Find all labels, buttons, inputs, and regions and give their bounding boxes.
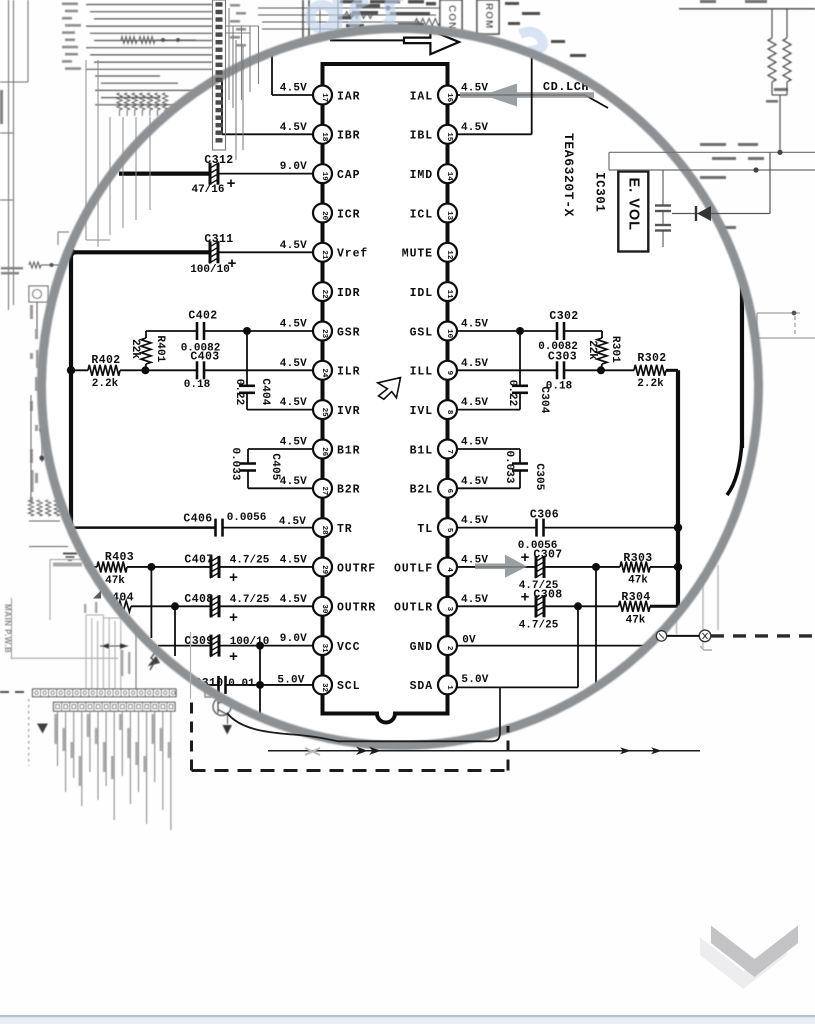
resistor R403 47k (90, 551, 151, 587)
node ILR junction (141, 366, 149, 374)
svg-text:IAR: IAR (337, 90, 360, 103)
background: diagonal diode squiggle (150, 650, 160, 670)
pin 23 GSR (313, 322, 360, 341)
svg-text:IVR: IVR (337, 405, 360, 418)
svg-text:GND: GND (410, 641, 433, 654)
svg-text:C408: C408 (184, 593, 213, 606)
svg-text:1: 1 (445, 685, 453, 690)
pin 18 IBR (313, 125, 360, 144)
svg-text:8: 8 (445, 410, 453, 415)
pin 30 OUTRR (313, 597, 376, 616)
pin 4 OUTLF (394, 558, 457, 577)
background: left text specks mid (0, 90, 23, 274)
svg-text:4.5V: 4.5V (280, 319, 307, 331)
svg-text:C306: C306 (530, 509, 559, 522)
pin 2 GND (410, 636, 457, 655)
svg-text:IBL: IBL (410, 130, 433, 143)
svg-text:C302: C302 (549, 310, 578, 323)
svg-text:4: 4 (445, 567, 453, 572)
svg-text:C308: C308 (533, 589, 562, 602)
pin 13 ICL (410, 204, 457, 223)
pin 9 ILL (410, 361, 457, 380)
svg-text:R403: R403 (105, 551, 134, 564)
svg-text:32: 32 (320, 683, 328, 693)
background: dashed stub left (0, 691, 24, 693)
svg-text:25: 25 (320, 408, 328, 418)
svg-text:Vref: Vref (337, 248, 368, 261)
node R303 bus junction (674, 563, 682, 571)
svg-text:C404: C404 (259, 378, 271, 405)
svg-text:C407: C407 (184, 554, 213, 567)
chevron shadow (700, 938, 787, 990)
wire right vertical (clipped) with hook (727, 260, 742, 495)
long wire with double arrows under IC (268, 747, 700, 755)
svg-text:0.01: 0.01 (228, 678, 255, 690)
background: left margin verticals (0, 0, 28, 310)
svg-text:30: 30 (320, 604, 328, 614)
svg-text:4.5V: 4.5V (461, 122, 488, 134)
node OUTRF junction (147, 563, 155, 638)
capacitor C304 0.22 on IVL net (457, 331, 550, 414)
svg-text:2.2k: 2.2k (637, 378, 664, 390)
label box E. VOL (618, 172, 648, 252)
svg-text:9: 9 (445, 371, 453, 376)
background: rotated CON box (440, 0, 462, 37)
svg-text:4.5V: 4.5V (461, 358, 488, 370)
background: small left box frame (50, 560, 82, 621)
svg-text:5.0V: 5.0V (277, 675, 304, 687)
node OUTRR junction (171, 602, 179, 656)
svg-text:4.5V: 4.5V (280, 83, 307, 95)
svg-text:3: 3 (445, 607, 453, 612)
overlay: descending verticals left (86, 8, 243, 247)
resistor R302 2.2k (601, 352, 678, 390)
svg-text:0.18: 0.18 (184, 379, 211, 391)
svg-text:24: 24 (320, 368, 328, 378)
svg-text:IDL: IDL (410, 287, 433, 300)
gray cursor arrow at OUTLF (475, 555, 527, 578)
svg-text:4.5V: 4.5V (461, 594, 488, 606)
gray cursor arrow at IAL (460, 84, 594, 107)
background: rotated ROM box (477, 0, 499, 34)
svg-text:0V: 0V (462, 635, 476, 647)
background: small double arrow (100, 643, 128, 649)
svg-text:ROM: ROM (483, 3, 494, 29)
pin 21 Vref (313, 243, 368, 262)
svg-text:B2R: B2R (337, 484, 360, 497)
svg-text:9.0V: 9.0V (280, 633, 307, 645)
svg-text:11: 11 (445, 290, 453, 300)
background: right gray verticals (677, 565, 719, 648)
capacitor C403 0.18 on ILR net (145, 351, 313, 392)
overlay gray riser at dashed corner (190, 632, 192, 699)
bottom divider line (0, 1015, 815, 1017)
wire left supply bus (67, 248, 75, 530)
wire right bus (676, 370, 680, 606)
svg-text:GSL: GSL (410, 326, 433, 339)
background: top mid wiring (258, 0, 440, 42)
svg-text:C403: C403 (190, 351, 219, 364)
svg-text:26: 26 (320, 447, 328, 457)
node ILL junction (597, 366, 605, 374)
pin 15 IBL (410, 125, 457, 144)
capacitor C308 4.7/25 on OUTLR net (457, 589, 578, 632)
svg-text:4.5V: 4.5V (280, 594, 307, 606)
svg-text:E. VOL: E. VOL (626, 178, 642, 232)
pin 14 IMD (410, 164, 457, 183)
pin 31 VCC (313, 636, 360, 655)
svg-text:18: 18 (320, 132, 328, 142)
background: left lower verticals and dots (31, 395, 45, 500)
capacitor C306 0.0056 on TL net (457, 509, 678, 553)
background: riser bundle above connector (86, 615, 136, 689)
background: top mid text blocks (338, 0, 586, 57)
background schematic: top-left ladder bus (86, 5, 212, 105)
pin 1 SDA (410, 675, 457, 694)
svg-text:16: 16 (445, 93, 453, 103)
svg-text:5.0V: 5.0V (461, 674, 488, 686)
svg-text:C305: C305 (533, 463, 545, 490)
background: C310 ground stub (205, 688, 212, 697)
watermark blue glyphs (310, 0, 543, 51)
wire IAL net to CD.LCH (457, 83, 608, 109)
top signal arrow (330, 30, 459, 54)
svg-text:47/16: 47/16 (191, 184, 224, 196)
svg-text:17: 17 (320, 93, 328, 102)
svg-text:C312: C312 (204, 154, 233, 167)
background: filled arrow below transistor (223, 725, 233, 735)
background: left lower resistor comb (28, 500, 68, 547)
pin 32 SCL (313, 675, 360, 694)
wire IBL net (457, 56, 532, 134)
connector circle node A (656, 631, 666, 641)
overlay: top-right diode (672, 152, 770, 221)
node OUTLF junction (592, 563, 600, 687)
wrap-around wire from transistor to SDA (227, 687, 500, 741)
svg-text:CON: CON (446, 5, 457, 30)
svg-text:0.033: 0.033 (229, 447, 241, 480)
resistor R401 22k (129, 331, 166, 370)
svg-text:B1R: B1R (337, 444, 360, 457)
pin 27 B2R (313, 479, 360, 498)
svg-text:4.5V: 4.5V (280, 240, 307, 252)
capacitor C305 0.033 between B1L and B2L (457, 437, 545, 491)
svg-text:+: + (229, 610, 238, 627)
svg-text:4.5V: 4.5V (461, 437, 488, 449)
svg-text:R303: R303 (623, 552, 652, 565)
svg-text:28: 28 (320, 526, 328, 536)
resistor R304 47k (578, 591, 678, 627)
svg-text:4.7/25: 4.7/25 (519, 620, 559, 632)
pin 22 IDR (313, 282, 360, 301)
background: hanging wires below connector (58, 711, 171, 830)
background: hanging wire labels (54, 602, 170, 786)
svg-text:22k: 22k (586, 340, 598, 360)
svg-text:2: 2 (445, 646, 453, 651)
pin 3 OUTLR (394, 597, 457, 616)
pin 20 ICR (313, 204, 360, 223)
cursor arrow at ILL (377, 376, 401, 400)
svg-text:10: 10 (445, 329, 453, 339)
svg-text:MUTE: MUTE (402, 248, 433, 261)
svg-text:+: + (226, 176, 235, 193)
svg-text:C402: C402 (188, 310, 217, 323)
svg-text:OUTLF: OUTLF (394, 562, 433, 575)
capacitor C307 4.7/25 on OUTLF net (457, 549, 596, 593)
svg-text:0.0056: 0.0056 (227, 512, 267, 524)
svg-text:SCL: SCL (337, 680, 360, 693)
svg-text:VCC: VCC (337, 641, 360, 654)
pin 28 TR (313, 518, 353, 537)
pin 24 ILR (313, 361, 360, 380)
svg-text:+: + (227, 256, 236, 273)
svg-text:ICR: ICR (337, 208, 360, 221)
capacitor C310 0.01 on SCL net (194, 675, 313, 694)
bottom panel (0, 1017, 815, 1024)
background: warning triangle (29, 699, 48, 766)
svg-text:12: 12 (445, 250, 453, 260)
svg-text:C406: C406 (183, 513, 212, 526)
pin 16 IAL (410, 86, 457, 105)
svg-text:4.7/25: 4.7/25 (230, 594, 270, 606)
capacitor C309 100/10 on VCC net (158, 633, 313, 666)
node GSR junction (243, 327, 251, 335)
pin 7 B1L (410, 440, 457, 459)
wire IBR net (222, 79, 313, 134)
svg-text:TR: TR (337, 523, 353, 536)
svg-text:4.5V: 4.5V (280, 397, 307, 409)
svg-text:TEA6320T-X: TEA6320T-X (561, 133, 576, 217)
svg-text:B1L: B1L (410, 444, 433, 457)
svg-text:R402: R402 (91, 354, 120, 367)
svg-text:9.0V: 9.0V (280, 161, 307, 173)
svg-text:22: 22 (320, 290, 328, 300)
pin 10 GSL (410, 322, 457, 341)
pin 5 TL (417, 518, 457, 537)
background: left resistor + box with circled glyph (29, 232, 69, 330)
pin 11 IDL (410, 282, 457, 301)
svg-text:4.5V: 4.5V (280, 476, 307, 488)
svg-text:IBR: IBR (337, 130, 360, 143)
svg-text:14: 14 (445, 172, 453, 182)
pin 26 B1R (313, 440, 360, 459)
resistor R301 22k (586, 331, 621, 370)
svg-text:4.5V: 4.5V (279, 516, 306, 528)
chevron down icon (711, 926, 798, 978)
overlay: top-right stacked capacitors (655, 170, 671, 247)
svg-text:0.22: 0.22 (506, 380, 518, 406)
pin 25 IVR (313, 400, 360, 419)
svg-text:ICL: ICL (410, 208, 433, 221)
background: ground symbol (53, 554, 82, 567)
svg-text:C307: C307 (533, 549, 562, 562)
background: transistor symbol near ring (213, 698, 231, 725)
svg-text:0.22: 0.22 (233, 379, 245, 405)
background: top-right text specks (622, 0, 788, 255)
svg-text:4.5V: 4.5V (461, 397, 488, 409)
svg-text:MAIN P.W.B: MAIN P.W.B (3, 604, 12, 653)
svg-text:IAL: IAL (410, 90, 433, 103)
dashed wire to right edge (711, 634, 815, 637)
svg-text:+: + (520, 590, 529, 607)
svg-text:19: 19 (320, 172, 328, 182)
overlay: right-mid small net (757, 311, 815, 338)
svg-text:C309: C309 (184, 635, 213, 648)
svg-text:4.7/25: 4.7/25 (230, 555, 270, 567)
svg-text:100/10: 100/10 (190, 264, 230, 276)
overlay: top-right double bus (609, 150, 815, 173)
svg-text:4.5V: 4.5V (280, 358, 307, 370)
wire GND net (457, 635, 650, 647)
wire between connector circles (667, 635, 700, 637)
svg-text:+: + (229, 649, 238, 666)
node SCL junction (256, 681, 264, 714)
background: left vertical text columns (30, 305, 39, 503)
background: connector strip row2 (54, 702, 176, 711)
svg-text:22k: 22k (129, 339, 141, 359)
svg-text:47k: 47k (628, 575, 648, 587)
capacitor C407 4.7/25 on OUTRF net (151, 554, 313, 588)
svg-text:ILR: ILR (337, 366, 360, 379)
svg-text:13: 13 (445, 211, 453, 221)
svg-text:IDR: IDR (337, 287, 360, 300)
node GSL junction (516, 327, 524, 335)
background: resistor comb (117, 91, 170, 117)
svg-text:C311: C311 (204, 233, 233, 246)
background: left thin rail (11, 598, 118, 659)
svg-text:IMD: IMD (410, 169, 433, 182)
connector circle node B (699, 630, 711, 642)
IC U-IC301 TEA6320T-X outline (323, 64, 448, 723)
svg-text:GSR: GSR (337, 326, 360, 339)
svg-text:4.5V: 4.5V (280, 122, 307, 134)
background: top-right resistor pair (768, 9, 791, 152)
capacitor C404 0.22 on IVR net (233, 331, 313, 410)
svg-text:C303: C303 (548, 351, 577, 364)
node VCC junction (256, 642, 264, 685)
capacitor C302 0.0082 on GSL net (457, 310, 602, 353)
svg-text:2.2k: 2.2k (92, 378, 119, 390)
capacitor C408 4.7/25 on OUTRR net (175, 593, 313, 627)
loupe white disc (44, 31, 756, 743)
dashed boundary line (192, 699, 509, 771)
overlay: dark blob left of R404 label (93, 591, 101, 599)
capacitor C311 100/10 on Vref pin (71, 233, 313, 276)
svg-text:31: 31 (320, 644, 328, 654)
svg-text:OUTLR: OUTLR (394, 602, 433, 615)
overlay: connector pin strip (213, 0, 226, 150)
svg-text:R301: R301 (609, 336, 621, 363)
svg-text:47k: 47k (626, 615, 646, 627)
pin 6 B2L (410, 479, 457, 498)
svg-text:5: 5 (445, 528, 453, 533)
svg-text:20: 20 (320, 211, 328, 221)
loupe ring (42, 29, 759, 746)
svg-text:IVL: IVL (410, 405, 433, 418)
svg-text:27: 27 (320, 486, 328, 495)
pin 12 MUTE (402, 243, 457, 262)
pin 8 IVL (410, 400, 457, 419)
svg-text:C304: C304 (538, 386, 550, 413)
pin 29 OUTRF (313, 558, 376, 577)
svg-text:OUTRR: OUTRR (337, 602, 376, 615)
svg-text:23: 23 (320, 329, 328, 339)
resistor R303 47k (596, 552, 678, 587)
background: ladder left text specks (62, 3, 246, 70)
svg-text:6: 6 (445, 489, 453, 494)
svg-text:R401: R401 (154, 335, 166, 362)
svg-text:ILL: ILL (410, 366, 433, 379)
node OUTLR junction (574, 602, 582, 687)
resistor R404 (partially hidden) (112, 592, 175, 612)
capacitor C402 0.0082 on GSR net (146, 310, 313, 355)
svg-text:SDA: SDA (410, 680, 433, 693)
svg-text:29: 29 (320, 565, 328, 575)
svg-text:4.5V: 4.5V (461, 515, 488, 527)
svg-text:47k: 47k (105, 575, 125, 587)
svg-text:4.5V: 4.5V (280, 437, 307, 449)
pin 17 IAR (313, 86, 360, 105)
capacitor C406 0.0056 on TR net (71, 512, 313, 537)
svg-text:0.033: 0.033 (503, 450, 515, 483)
svg-text:21: 21 (320, 250, 328, 260)
wire IAR net + node (272, 54, 313, 95)
resistor R402 2.2k (67, 354, 146, 390)
svg-text:CAP: CAP (337, 169, 360, 182)
capacitor C405 0.033 between B1R and B2R (229, 437, 313, 489)
wire SDA net (457, 674, 578, 687)
background: connector strip row1 (33, 689, 177, 697)
svg-text:+: + (229, 570, 238, 587)
speck below connector B (700, 646, 712, 650)
background: resistor pair top (121, 37, 196, 44)
svg-text:4.5V: 4.5V (280, 555, 307, 567)
svg-text:4.5V: 4.5V (461, 319, 488, 331)
background: top-right horizontal line (679, 8, 815, 10)
node TL junction (674, 523, 682, 531)
svg-text:7: 7 (445, 449, 453, 454)
capacitor C312 47/16 on CAP pin (119, 154, 313, 196)
svg-text:IC301: IC301 (593, 172, 607, 213)
svg-text:R302: R302 (637, 352, 666, 365)
overlay: verticals bundle to ring (226, 26, 259, 108)
svg-text:OUTRF: OUTRF (337, 562, 376, 575)
svg-text:TL: TL (417, 523, 433, 536)
svg-text:B2L: B2L (410, 484, 433, 497)
pin 19 CAP (313, 164, 360, 183)
capacitor C303 0.18 on ILL net (457, 351, 601, 393)
svg-text:4.5V: 4.5V (461, 476, 488, 488)
svg-text:15: 15 (445, 132, 453, 142)
svg-text:R304: R304 (621, 591, 650, 604)
